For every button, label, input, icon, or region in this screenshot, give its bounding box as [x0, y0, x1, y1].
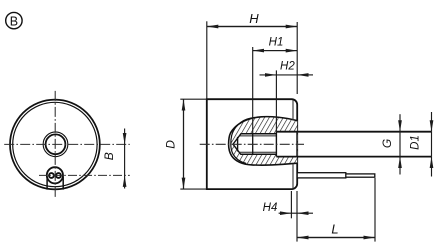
svg-text:L: L: [331, 222, 338, 237]
pin hole right: [56, 173, 61, 178]
dimension L: [297, 178, 375, 242]
thread minor top line: [240, 135, 277, 137]
thread major top line: [241, 133, 277, 135]
cone face line: [237, 137, 239, 152]
svg-text:H4: H4: [263, 202, 278, 214]
clamp hole circle: [47, 167, 63, 183]
svg-text:H2: H2: [280, 60, 295, 72]
swage outer profile: [229, 117, 298, 165]
body outline side view: [207, 99, 297, 189]
swage inner wall arc: [231, 117, 255, 163]
hatch fill of swage section: [231, 117, 298, 165]
dimension B: [124, 129, 126, 189]
hub chamfer circle: [43, 132, 68, 157]
vertical centerline front view: [54, 91, 56, 197]
leaf blade: [344, 174, 375, 177]
rod top line: [276, 131, 431, 133]
rod shoulder line: [275, 132, 277, 157]
cone point: [233, 134, 241, 155]
thread minor bottom line: [240, 151, 277, 153]
dimension G: [399, 114, 401, 174]
svg-text:B: B: [102, 152, 116, 160]
dimension D: [180, 99, 207, 189]
svg-text:H: H: [249, 11, 259, 26]
slot side line left: [46, 177, 48, 190]
dimension H4: [279, 191, 313, 242]
clamp hole centerline: [39, 174, 130, 176]
inner face line lower: [292, 164, 294, 188]
svg-text:D1: D1: [409, 135, 421, 150]
horizontal centerline front view: [2, 143, 130, 145]
svg-text:H1: H1: [269, 37, 284, 49]
dimension H: [207, 21, 297, 99]
svg-text:D: D: [163, 140, 177, 149]
H1 extension into body: [252, 99, 254, 134]
thread feature line: [252, 134, 254, 155]
dimension H2: [260, 70, 314, 99]
svg-text:B: B: [10, 14, 18, 28]
pin hole left: [49, 173, 54, 178]
inner face line upper: [292, 100, 294, 120]
side view centerline: [200, 143, 304, 145]
dimension H1: [253, 47, 298, 99]
front view outer circle: [10, 100, 100, 190]
H2 extension into body: [275, 99, 277, 132]
view label B (circled): [6, 12, 22, 28]
thread major bottom line: [241, 153, 277, 155]
leaf plate: [297, 173, 346, 178]
dimension D1: [431, 112, 433, 177]
rod bottom line: [276, 156, 431, 158]
svg-text:G: G: [380, 139, 394, 148]
front view inner circle: [13, 102, 97, 186]
slot side line right: [62, 177, 64, 190]
hub bore circle: [46, 134, 66, 154]
